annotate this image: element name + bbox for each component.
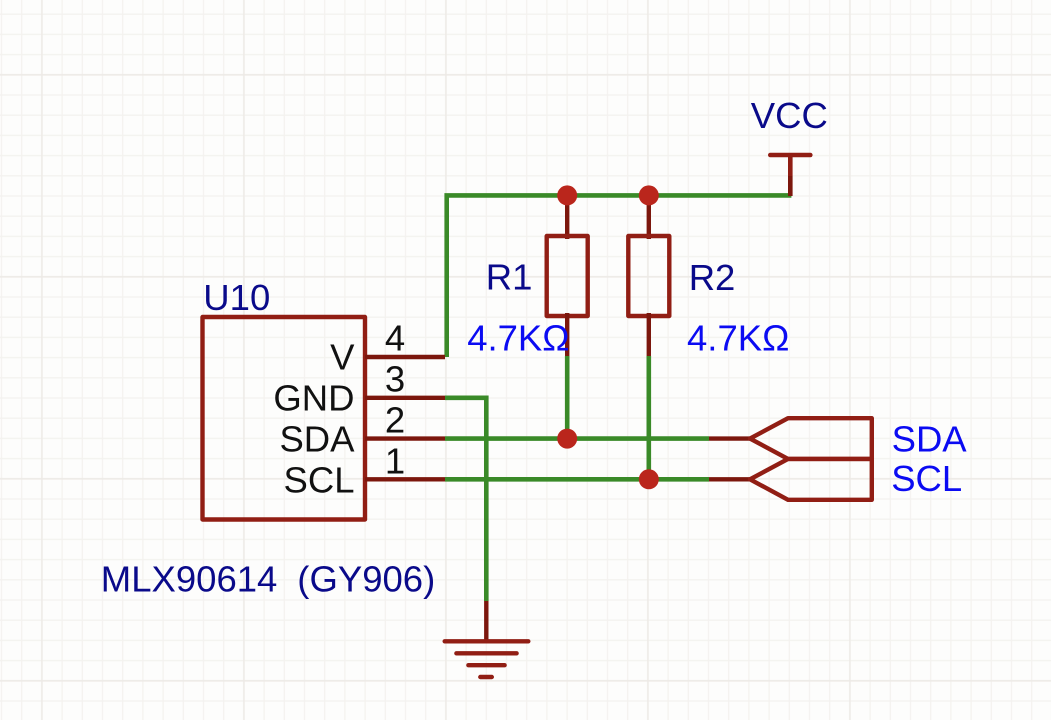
- pin 4 V stub: [365, 355, 445, 359]
- junction dot at VCC rail / R1: [557, 185, 577, 205]
- svg-text:R1: R1: [486, 257, 533, 298]
- resistor R2: [628, 195, 669, 479]
- ground bar 4: [480, 675, 492, 679]
- wire R1 to SDA: [565, 356, 570, 439]
- VCC stem: [788, 155, 793, 176]
- junction dot at VCC rail / R2: [639, 185, 659, 205]
- wire R2 to SCL: [646, 356, 651, 479]
- svg-text:3: 3: [385, 358, 405, 399]
- svg-text:MLX90614: MLX90614: [101, 559, 278, 600]
- VCC bar: [770, 153, 810, 158]
- R2 body: [628, 236, 669, 316]
- SDA port pin: [709, 436, 750, 440]
- wire: U10 GND pin to ground symbol: [445, 398, 486, 601]
- svg-text:4: 4: [385, 317, 405, 358]
- svg-text:SDA: SDA: [892, 419, 968, 460]
- VCC pin: [788, 176, 793, 196]
- svg-text:4.7KΩ: 4.7KΩ: [687, 318, 789, 359]
- ground bar 1: [445, 639, 529, 643]
- pin 3 GND stub: [365, 396, 445, 400]
- svg-text:VCC: VCC: [751, 95, 828, 136]
- svg-text:GND: GND: [273, 378, 354, 419]
- net port SDA: [709, 418, 872, 459]
- R2 pin 1 lead: [647, 195, 651, 239]
- junction dot at SDA / R1: [557, 429, 577, 449]
- svg-text:4.7KΩ: 4.7KΩ: [467, 318, 569, 359]
- R1 pin 1 lead: [565, 195, 569, 239]
- wire: SCL net: [445, 477, 709, 482]
- IC U10 body: [203, 317, 366, 520]
- svg-text:R2: R2: [689, 257, 736, 298]
- ground bar 3: [468, 663, 504, 667]
- svg-text:(GY906): (GY906): [297, 559, 435, 600]
- wire: SDA net: [445, 436, 709, 441]
- svg-text:V: V: [330, 337, 355, 378]
- pin 1 SCL stub: [365, 477, 445, 481]
- svg-text:SCL: SCL: [891, 458, 962, 499]
- svg-text:1: 1: [385, 440, 405, 481]
- SCL port flag: [750, 459, 872, 500]
- power flag VCC: [770, 155, 810, 196]
- ground bar 2: [456, 651, 516, 655]
- svg-text:SDA: SDA: [279, 419, 355, 460]
- svg-text:2: 2: [385, 399, 405, 440]
- SDA port flag: [750, 418, 872, 459]
- ground pin: [484, 601, 488, 641]
- resistor R1: [547, 195, 588, 438]
- svg-text:U10: U10: [203, 277, 270, 318]
- R1 body: [547, 236, 588, 316]
- junction dot at SCL / R2: [639, 469, 659, 489]
- pin 2 SDA stub: [365, 436, 445, 440]
- R2 pin 2 lead: [647, 313, 651, 356]
- SCL port pin: [709, 477, 750, 481]
- net port SCL: [709, 459, 872, 500]
- wire: VCC rail to R1/R2 and down to U10 pin V: [447, 195, 792, 357]
- R1 pin 2 lead: [565, 313, 569, 356]
- svg-text:SCL: SCL: [283, 460, 354, 501]
- ground symbol: [445, 601, 529, 677]
